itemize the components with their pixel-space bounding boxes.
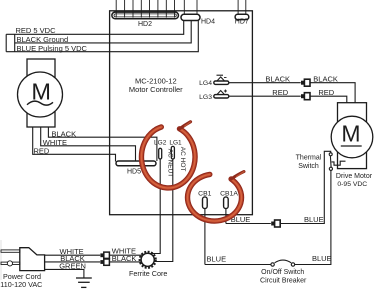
svg-text:110-120 VAC: 110-120 VAC xyxy=(0,280,42,289)
connector HD7 xyxy=(235,0,249,20)
wire WHITE power xyxy=(45,254,101,256)
ferrite core L1 xyxy=(140,252,156,268)
highlight circle around LG2/LG1 xyxy=(141,122,195,188)
svg-text:BLUE: BLUE xyxy=(312,254,332,263)
inline connector J2 (RED right) xyxy=(301,93,310,100)
svg-text:HD2: HD2 xyxy=(138,21,152,28)
wire BLUE bottom loop to on/off switch xyxy=(205,264,271,266)
inline connector J3 (BLUE) xyxy=(271,220,280,227)
scan edge artifact xyxy=(0,240,2,280)
svg-text:GREEN: GREEN xyxy=(59,262,86,271)
wire BLACK incline motor to HD5 xyxy=(48,127,156,161)
wire RED incline motor to HD5 xyxy=(33,127,116,162)
svg-text:On/Off Switch: On/Off Switch xyxy=(261,269,304,276)
svg-text:Circuit Breaker: Circuit Breaker xyxy=(260,277,307,284)
svg-text:CB1: CB1 xyxy=(198,190,211,197)
terminal LG1 xyxy=(171,146,174,159)
wire BLUE Pulsing from HD4 xyxy=(6,21,198,52)
svg-text:RED: RED xyxy=(272,88,288,97)
svg-text:LG2: LG2 xyxy=(154,140,167,147)
svg-text:Motor Controller: Motor Controller xyxy=(129,85,183,94)
svg-text:RED 5 VDC: RED 5 VDC xyxy=(16,26,57,35)
drive motor M2 circle xyxy=(331,116,373,158)
thermal switch S2 xyxy=(329,153,345,171)
svg-text:RED: RED xyxy=(34,147,50,156)
ground symbol xyxy=(76,278,92,287)
svg-text:0-95 VDC: 0-95 VDC xyxy=(337,181,367,188)
terminal CB1 xyxy=(203,197,208,209)
svg-text:LG1: LG1 xyxy=(169,140,182,147)
highlight circle around CB1/CB1A xyxy=(188,172,244,222)
wire BLUE CB1A to thermal switch xyxy=(226,223,271,225)
wire RED LG3 to drive motor xyxy=(229,95,301,97)
terminal CB1A xyxy=(224,197,229,209)
svg-text:HD5: HD5 xyxy=(127,169,141,176)
svg-text:AC NEUT: AC NEUT xyxy=(166,149,173,178)
inline connector J4 (WHITE power) xyxy=(100,252,109,258)
svg-text:M: M xyxy=(31,78,51,104)
wire AC NEUT LG2 to ferrite xyxy=(150,159,161,254)
connector HD5 xyxy=(116,161,156,166)
svg-text:HD4: HD4 xyxy=(201,19,215,26)
svg-text:BLUE: BLUE xyxy=(304,215,324,224)
wire BLUE CB1 down xyxy=(204,209,206,265)
wire WHITE incline motor to HD5 xyxy=(41,127,136,161)
power cord prong 2 (ground) xyxy=(1,262,20,264)
inline connector J5 (BLACK power) xyxy=(100,259,109,265)
incline motor tilde xyxy=(27,101,53,105)
on/off switch S1 xyxy=(271,260,295,266)
drive motor M2 body xyxy=(338,103,367,169)
wire BLACK power xyxy=(45,261,101,263)
svg-text:LG4: LG4 xyxy=(199,80,212,87)
incline motor M1 body xyxy=(27,59,55,127)
svg-text:Ferrite Core: Ferrite Core xyxy=(129,269,167,278)
inline connector J1 (BLACK right) xyxy=(301,79,310,86)
wire BLACK LG4 to drive motor xyxy=(229,82,301,84)
svg-text:LG3: LG3 xyxy=(199,94,212,101)
terminal LG3 xyxy=(214,90,229,99)
svg-text:Switch: Switch xyxy=(298,163,319,170)
svg-text:Thermal: Thermal xyxy=(296,155,322,162)
svg-text:BLUE: BLUE xyxy=(207,255,227,264)
wire AC HOT LG1 to ferrite xyxy=(154,159,173,262)
console terminator block xyxy=(6,34,15,51)
incline motor M1 circle xyxy=(18,72,63,117)
terminal LG4 xyxy=(214,75,229,84)
svg-text:BLACK: BLACK xyxy=(313,75,338,84)
drive motor underline xyxy=(341,145,362,147)
svg-text:BLACK Ground: BLACK Ground xyxy=(17,35,69,44)
wire BLACK Ground from HD4 xyxy=(15,21,192,43)
power cord prong 1 xyxy=(1,250,20,252)
connector HD4 xyxy=(181,0,200,21)
svg-text:CB1A: CB1A xyxy=(220,190,238,197)
wire RED 5VDC from HD4 xyxy=(6,21,184,35)
wire BLUE CB1A down xyxy=(225,209,227,224)
svg-text:BLUE Pulsing 5 VDC: BLUE Pulsing 5 VDC xyxy=(17,44,88,53)
svg-text:BLACK: BLACK xyxy=(112,254,137,263)
svg-text:BLACK: BLACK xyxy=(265,75,290,84)
terminal LG2 xyxy=(159,148,162,159)
svg-text:M: M xyxy=(341,121,360,147)
connector HD2 xyxy=(112,0,178,19)
wire GREEN power to ground xyxy=(45,269,84,277)
svg-text:HD7: HD7 xyxy=(235,18,249,25)
svg-text:Drive Motor: Drive Motor xyxy=(336,173,373,180)
svg-text:AC HOT: AC HOT xyxy=(179,147,186,172)
MC-2100 controller box U1 xyxy=(110,11,253,215)
power cord plug P1 xyxy=(20,248,45,271)
svg-text:RED: RED xyxy=(318,88,334,97)
